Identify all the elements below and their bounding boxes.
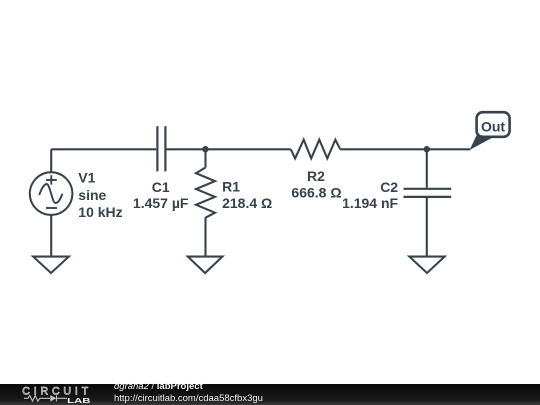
svg-text:1.457 µF: 1.457 µF [133,195,189,211]
svg-text:Out: Out [481,119,505,135]
svg-text:C1: C1 [152,179,170,195]
svg-text:1.194 nF: 1.194 nF [342,195,398,211]
svg-text:sine: sine [78,187,106,203]
svg-text:R2: R2 [307,168,325,184]
svg-text:R1: R1 [222,179,240,195]
svg-text:LAB: LAB [67,396,90,405]
svg-text:10 kHz: 10 kHz [78,204,122,220]
svg-text:V1: V1 [78,170,95,186]
svg-text:666.8 Ω: 666.8 Ω [291,184,341,200]
svg-text:C2: C2 [380,179,398,195]
svg-text:218.4 Ω: 218.4 Ω [222,195,272,211]
